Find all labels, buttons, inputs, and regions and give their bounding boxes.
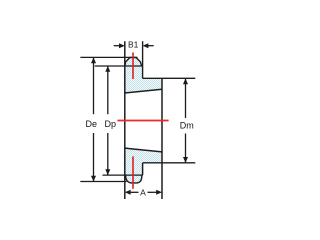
bottom shoulder / Dm bottom extension line xyxy=(143,162,196,164)
bottom tooth right edge xyxy=(142,163,144,175)
Dp top arrowhead xyxy=(105,66,110,72)
hub right edge / A right extension xyxy=(161,78,163,199)
A left arrowhead pointing left xyxy=(125,190,131,195)
De bottom extension line xyxy=(80,181,126,183)
left body edge / B1 left extension / A left extension xyxy=(124,41,126,199)
De dimension line lower segment xyxy=(93,133,95,181)
bottom web slant line xyxy=(125,148,162,152)
Dp dimension line upper segment xyxy=(107,67,109,115)
De top extension line xyxy=(80,56,137,58)
B1 left arrowhead pointing right xyxy=(119,43,125,48)
red bottom tooth centerline xyxy=(132,156,134,188)
hatched bottom hub and tooth section xyxy=(125,148,162,183)
B1 right extension / tooth right edge xyxy=(142,41,144,78)
Dm dimension line upper segment xyxy=(185,79,187,118)
Dp bottom arrowhead xyxy=(105,169,110,175)
A dimension line left segment xyxy=(131,191,139,193)
top tooth outline xyxy=(125,58,142,67)
Dp top extension line xyxy=(95,65,143,67)
top web slant line xyxy=(125,89,162,93)
svg-text:A: A xyxy=(140,187,146,197)
svg-text:De: De xyxy=(86,119,98,129)
top shoulder / Dm top extension line xyxy=(143,77,196,79)
svg-text:Dm: Dm xyxy=(180,120,194,130)
B1 dimension right tail line xyxy=(148,45,154,47)
red top tooth centerline xyxy=(132,52,134,79)
De top arrowhead xyxy=(91,57,96,63)
De bottom arrowhead xyxy=(91,176,96,182)
Dp dimension line lower segment xyxy=(107,133,109,175)
red horizontal centerline xyxy=(117,120,168,122)
B1 right arrowhead pointing left xyxy=(143,43,149,48)
B1 dimension left tail line xyxy=(114,45,120,47)
svg-text:B1: B1 xyxy=(128,39,139,49)
bottom tooth outline xyxy=(126,175,142,183)
hatched top rim and tooth section xyxy=(125,58,162,94)
A right arrowhead pointing right xyxy=(156,190,162,195)
svg-text:Dp: Dp xyxy=(105,119,117,129)
Dm dimension line lower segment xyxy=(185,134,187,163)
A dimension line right segment xyxy=(148,191,157,193)
De dimension line upper segment xyxy=(93,58,95,114)
Dm bottom arrowhead xyxy=(183,157,188,163)
Dp bottom extension line xyxy=(103,174,143,176)
Dm top arrowhead xyxy=(183,78,188,84)
